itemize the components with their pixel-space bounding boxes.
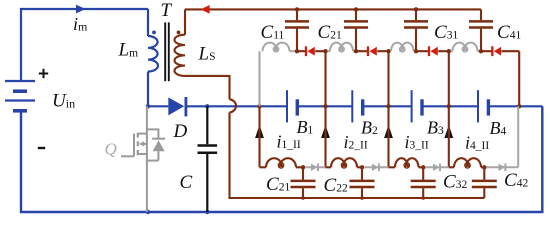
svg-text:T: T bbox=[161, 0, 173, 21]
svg-text:C: C bbox=[180, 172, 193, 193]
svg-text:Q: Q bbox=[105, 140, 117, 159]
svg-text:D: D bbox=[173, 121, 188, 142]
